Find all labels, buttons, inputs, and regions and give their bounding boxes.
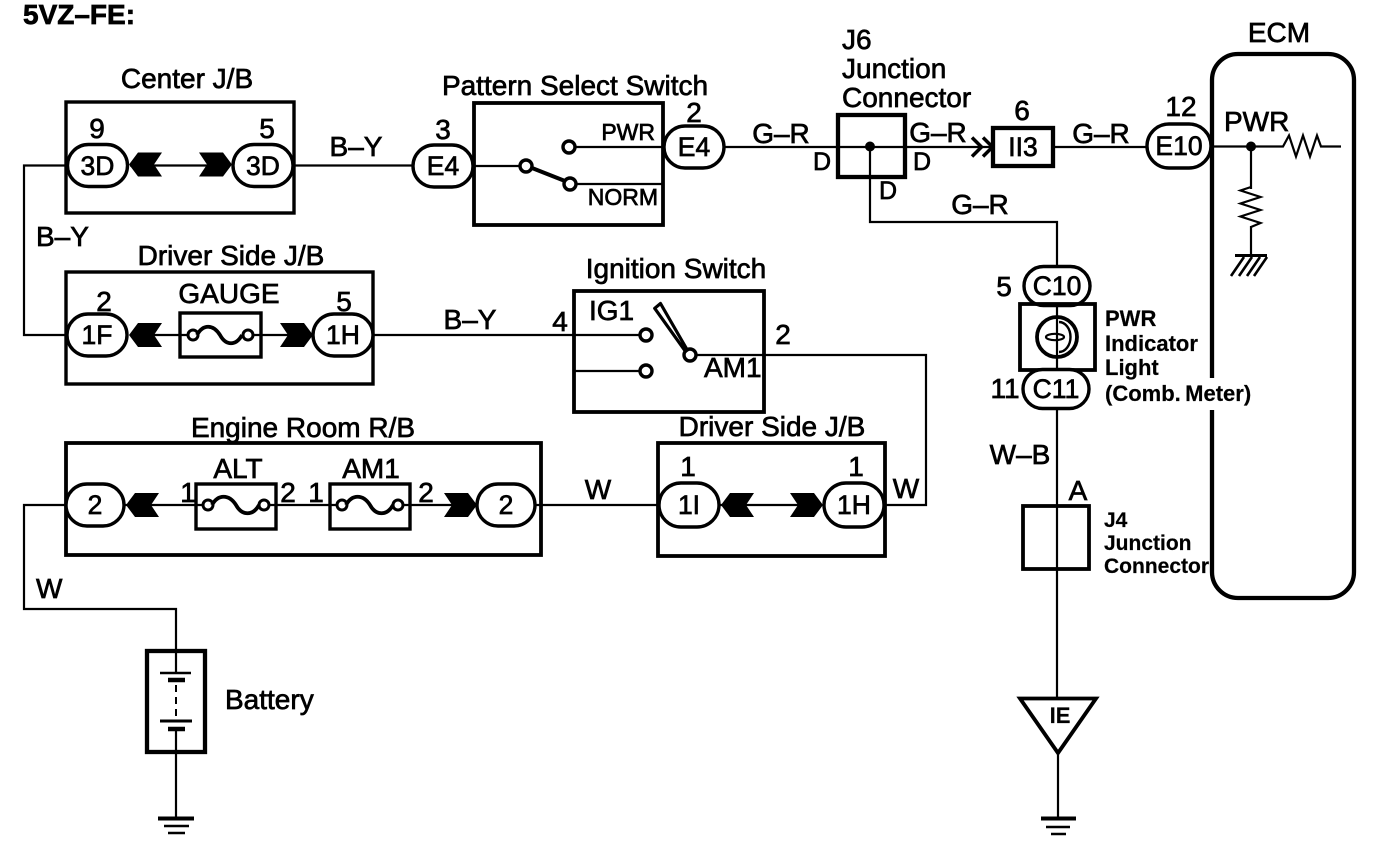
fuse GAUGE box — [180, 313, 261, 357]
Driver Side J/B box — [66, 272, 373, 384]
wire B-Y from 3D(5) to E4(3) — [293, 164, 413, 166]
connector II3 box — [993, 128, 1053, 166]
svg-text:AM1: AM1 — [704, 352, 762, 383]
connector oval 2 right — [477, 484, 535, 526]
svg-text:C10: C10 — [1033, 271, 1082, 301]
svg-text:Driver Side J/B: Driver Side J/B — [679, 411, 866, 442]
svg-text:2: 2 — [418, 477, 434, 508]
svg-text:1: 1 — [308, 477, 324, 508]
svg-text:G–R: G–R — [1072, 118, 1130, 149]
svg-text:B–Y: B–Y — [444, 304, 497, 335]
wire resistor to ground — [1250, 226, 1252, 254]
svg-text:B–Y: B–Y — [36, 221, 89, 252]
wire 1F to 1H — [130, 334, 189, 336]
svg-text:Connector: Connector — [842, 82, 971, 113]
svg-text:1F: 1F — [82, 320, 113, 350]
svg-text:A: A — [1069, 475, 1088, 506]
AM1 contact — [684, 349, 696, 361]
svg-text:D: D — [879, 177, 897, 205]
svg-text:G–R: G–R — [752, 118, 810, 149]
battery bottom lead — [175, 731, 177, 752]
wire from J6 node down to C10 — [870, 147, 1057, 268]
svg-text:Light: Light — [1105, 355, 1159, 380]
arrow left (female) — [126, 493, 159, 517]
svg-text:D: D — [813, 148, 831, 176]
wire node down — [1250, 147, 1252, 190]
svg-text:PWR: PWR — [1224, 106, 1289, 137]
Engine Room R/B box — [66, 443, 541, 555]
svg-text:W: W — [585, 474, 612, 505]
connector oval 1I — [659, 483, 719, 527]
connector oval 1H pin 5 — [313, 314, 373, 356]
wire B-Y from 1H to ignition switch — [373, 334, 574, 336]
svg-text:E10: E10 — [1155, 131, 1202, 161]
svg-text:1: 1 — [848, 451, 864, 482]
svg-text:Connector: Connector — [1104, 555, 1209, 578]
svg-text:1I: 1I — [678, 490, 700, 520]
svg-text:J4: J4 — [1104, 509, 1128, 532]
svg-text:1H: 1H — [326, 320, 360, 350]
wire from 3D(9) left and down to 1F — [24, 166, 67, 336]
wire 1I to 1H — [720, 504, 822, 506]
wire to IG1 contact — [574, 334, 640, 336]
connector oval E10 pin 12 — [1147, 124, 1211, 168]
ECM box — [1212, 54, 1354, 598]
svg-text:NORM: NORM — [588, 184, 658, 210]
svg-text:2: 2 — [686, 97, 702, 128]
svg-text:D: D — [913, 148, 931, 176]
Pattern Select Switch box — [474, 103, 663, 225]
svg-text:B–Y: B–Y — [330, 131, 383, 162]
connector oval 1F pin 2 — [67, 314, 127, 356]
svg-text:1H: 1H — [837, 490, 871, 520]
svg-text:PWR: PWR — [1105, 306, 1156, 331]
svg-text:11: 11 — [990, 373, 1019, 404]
PWR indicator light box — [1020, 304, 1095, 370]
svg-text:Center J/B: Center J/B — [121, 63, 253, 94]
svg-text:1: 1 — [180, 477, 196, 508]
svg-text:(Comb. Meter): (Comb. Meter) — [1105, 381, 1251, 406]
ground symbol IE — [1041, 817, 1076, 821]
svg-text:12: 12 — [1165, 91, 1196, 122]
connector oval C10 — [1024, 267, 1090, 306]
svg-text:9: 9 — [89, 113, 105, 144]
wire IE to ground — [1057, 753, 1059, 817]
svg-text:G–R: G–R — [951, 189, 1009, 220]
wire battery to ground — [175, 752, 177, 817]
wire 3D to 3D — [130, 164, 230, 166]
wire G-R from J6 to II3 — [905, 146, 993, 148]
wire common into switch — [474, 165, 520, 167]
connector oval E4 pin 3 — [413, 145, 473, 187]
fuse AM1 box — [330, 484, 410, 529]
svg-text:C11: C11 — [1033, 374, 1080, 404]
switch lever — [532, 168, 565, 181]
svg-text:Ignition Switch: Ignition Switch — [586, 253, 767, 284]
resistor R vertical — [1241, 187, 1261, 227]
wire W from R/B to 1I — [535, 504, 659, 506]
connector oval 2 left — [66, 484, 124, 526]
battery plate long top — [160, 672, 191, 675]
fuse AM1 element — [337, 500, 347, 510]
svg-text:3D: 3D — [81, 151, 115, 181]
wire PWR contact to box edge — [575, 146, 663, 148]
IG1 contact — [640, 329, 652, 341]
fuse ALT element — [203, 500, 213, 510]
Center J/B box — [66, 102, 294, 213]
connector oval C11 — [1023, 370, 1089, 409]
arrow right (male) — [444, 493, 477, 517]
wire to lower contact — [574, 370, 640, 372]
J6 junction connector box — [838, 115, 905, 177]
wire E10 into ECM — [1211, 145, 1251, 147]
connector oval 3D pin 9 — [68, 145, 128, 187]
wire from R/B oval 2 left down to battery — [24, 505, 176, 651]
switch PWR contact — [563, 141, 575, 153]
Ignition Switch box — [574, 291, 764, 412]
arrow right (male) — [280, 323, 313, 347]
svg-text:II3: II3 — [1008, 132, 1037, 162]
resistor R horizontal — [1251, 136, 1341, 157]
svg-text:W: W — [36, 573, 63, 604]
arrow left (female) — [129, 323, 162, 347]
wire AM1 to 1H of lower J/B — [696, 355, 926, 505]
Driver Side J/B lower box — [658, 443, 885, 556]
svg-text:3: 3 — [435, 114, 451, 145]
battery plate short top — [168, 678, 185, 683]
svg-text:Junction: Junction — [842, 53, 946, 84]
ground symbol battery — [158, 817, 194, 821]
svg-text:2: 2 — [499, 490, 514, 520]
wire across R/B — [124, 504, 204, 506]
wire C11 down to J4 — [1056, 408, 1058, 506]
svg-text:Indicator: Indicator — [1105, 331, 1198, 356]
svg-text:IG1: IG1 — [589, 295, 634, 326]
arrow left (female) — [721, 493, 754, 517]
svg-text:PWR: PWR — [601, 119, 655, 145]
connector oval 3D pin 5 — [233, 145, 293, 187]
ignition key lever — [655, 304, 688, 352]
chassis ground ECM — [1235, 254, 1267, 257]
svg-text:5VZ–FE:: 5VZ–FE: — [23, 0, 135, 30]
arrow left (female) — [129, 153, 162, 177]
svg-text:ALT: ALT — [213, 453, 262, 484]
svg-text:Engine Room R/B: Engine Room R/B — [191, 412, 415, 443]
arrow right (male) — [199, 153, 232, 177]
connector oval 1H — [824, 483, 884, 527]
ground triangle IE — [1020, 699, 1096, 754]
svg-text:Driver Side J/B: Driver Side J/B — [138, 240, 325, 271]
svg-text:6: 6 — [1014, 95, 1030, 126]
battery dashed center — [175, 685, 177, 716]
svg-text:IE: IE — [1050, 703, 1071, 728]
svg-text:2: 2 — [280, 477, 296, 508]
battery top lead — [175, 651, 177, 672]
battery plate long bottom — [160, 720, 192, 723]
svg-text:W–B: W–B — [990, 439, 1051, 470]
wire through J4 — [1056, 506, 1058, 569]
svg-text:W: W — [893, 473, 920, 504]
connector oval E4 pin 2 — [664, 126, 724, 168]
arrow right (male) — [790, 493, 823, 517]
switch NORM contact — [564, 178, 576, 190]
junction dot node D — [865, 142, 875, 152]
svg-text:5: 5 — [259, 113, 275, 144]
node PWR junction dot — [1246, 142, 1256, 152]
svg-text:5: 5 — [996, 271, 1012, 302]
svg-text:G–R: G–R — [909, 117, 967, 148]
svg-text:J6: J6 — [842, 24, 872, 55]
J4 junction connector box — [1023, 506, 1089, 569]
wire NORM contact to box edge — [576, 183, 663, 185]
fuse ALT box — [196, 484, 276, 529]
svg-text:2: 2 — [775, 319, 791, 350]
fuse GAUGE element — [188, 330, 198, 340]
splice chevrons — [972, 138, 982, 157]
svg-text:Pattern Select Switch: Pattern Select Switch — [442, 70, 708, 101]
svg-text:1: 1 — [680, 451, 696, 482]
lamp inner arc — [1059, 322, 1071, 352]
svg-text:2: 2 — [88, 490, 103, 520]
battery plate short bottom — [168, 727, 185, 732]
wire J4 down to IE — [1056, 569, 1058, 698]
wire through lamp box — [1056, 305, 1058, 369]
svg-text:3D: 3D — [246, 151, 280, 181]
svg-text:Battery: Battery — [225, 684, 314, 715]
svg-text:E4: E4 — [678, 132, 710, 162]
svg-text:E4: E4 — [427, 151, 459, 181]
wire G-R from II3 to E10 — [1053, 146, 1147, 148]
svg-text:GAUGE: GAUGE — [178, 278, 279, 309]
svg-text:ECM: ECM — [1248, 17, 1310, 48]
wire G-R from E4 to J6 — [724, 146, 905, 148]
battery box — [147, 651, 205, 752]
svg-text:Junction: Junction — [1104, 532, 1192, 555]
svg-text:4: 4 — [552, 306, 568, 337]
svg-text:AM1: AM1 — [342, 453, 400, 484]
switch common contact — [520, 160, 532, 172]
lamp bulb circle — [1037, 317, 1077, 357]
unused contact — [640, 365, 652, 377]
lamp filament — [1046, 334, 1064, 340]
